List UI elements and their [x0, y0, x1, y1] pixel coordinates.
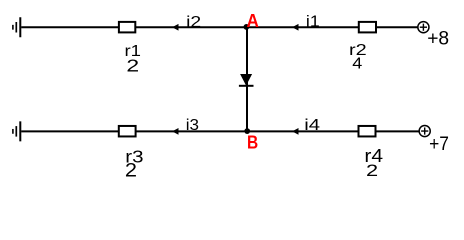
svg-text:i2: i2 — [186, 14, 201, 31]
svg-text:i1: i1 — [306, 13, 320, 30]
svg-text:4: 4 — [352, 55, 363, 72]
svg-text:+8: +8 — [427, 28, 449, 50]
svg-text:2: 2 — [366, 161, 378, 180]
svg-text:2: 2 — [126, 55, 139, 75]
svg-text:2: 2 — [125, 160, 137, 181]
svg-text:B: B — [247, 133, 258, 153]
svg-text:i3: i3 — [186, 117, 199, 134]
svg-text:A: A — [246, 11, 258, 31]
svg-text:i4: i4 — [304, 117, 320, 134]
svg-text:+7: +7 — [429, 133, 449, 155]
